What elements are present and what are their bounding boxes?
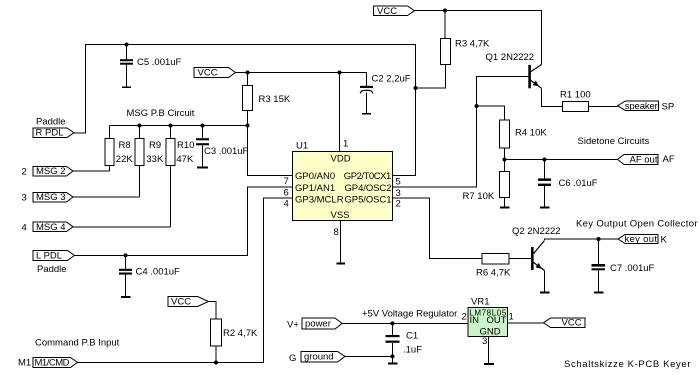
- svg-text:R8: R8: [119, 140, 131, 151]
- svg-text:2: 2: [462, 312, 467, 323]
- svg-text:GP4/OSC2: GP4/OSC2: [345, 183, 392, 194]
- svg-text:R7 10K: R7 10K: [463, 191, 495, 202]
- svg-text:8: 8: [334, 227, 339, 238]
- resistor R8: [109, 126, 111, 139]
- svg-text:GP1/AN1: GP1/AN1: [295, 183, 335, 194]
- tag MSG 2: [33, 167, 73, 177]
- node junction C7: [597, 237, 601, 241]
- tag VCC (VR1 out): [544, 318, 586, 328]
- svg-text:Q2 2N2222: Q2 2N2222: [512, 226, 561, 237]
- svg-text:SP: SP: [662, 101, 675, 112]
- wire VR1 gnd: [488, 337, 490, 364]
- wire Q2 emitter to ground: [544, 271, 546, 293]
- node junction VCC/VDD: [338, 71, 342, 75]
- svg-text:R4 10K: R4 10K: [515, 128, 547, 139]
- svg-text:+5V Voltage Regulator: +5V Voltage Regulator: [362, 309, 457, 320]
- resistor R9: [138, 124, 142, 128]
- svg-text:key out: key out: [625, 234, 658, 245]
- wire Q2 collector to key out: [545, 239, 619, 240]
- wire sidetone node to AF out: [505, 159, 618, 161]
- svg-text:U1: U1: [296, 141, 308, 152]
- node junction VCC/R3: [246, 71, 250, 75]
- svg-text:6: 6: [284, 187, 289, 198]
- svg-text:R3 4,7K: R3 4,7K: [455, 39, 490, 50]
- resistor R1 100: [563, 102, 589, 112]
- ground (C3): [197, 167, 208, 169]
- svg-text:AF out: AF out: [630, 154, 658, 165]
- capacitor C1: [392, 323, 394, 335]
- tag speaker: [618, 101, 659, 111]
- tag MSG 3: [33, 193, 73, 203]
- wire pin2 to R6: [393, 198, 483, 259]
- node junction on pin5 line: [414, 86, 418, 90]
- svg-text:R9: R9: [149, 140, 161, 151]
- wire MSG4 to R10: [73, 226, 171, 228]
- node junction C6: [543, 158, 547, 162]
- wire R3 to msg bus to pin7: [248, 111, 293, 176]
- tag MSG 4: [33, 222, 73, 232]
- svg-text:VSS: VSS: [331, 210, 350, 221]
- svg-text:GP0/AN0: GP0/AN0: [295, 171, 335, 182]
- svg-text:2: 2: [396, 199, 401, 210]
- node junction VCC/R3b: [443, 9, 447, 13]
- resistor R6 4,7K: [482, 254, 509, 265]
- svg-text:Command P.B Input: Command P.B Input: [35, 338, 120, 349]
- wire VR1 out to VCC tag: [508, 322, 544, 324]
- svg-text:VCC: VCC: [171, 297, 191, 308]
- tag M1/CMD: [33, 358, 78, 368]
- tag R PDL: [33, 128, 74, 138]
- node junction C1/ground wire: [391, 354, 395, 358]
- svg-text:C4 .001uF: C4 .001uF: [136, 267, 181, 278]
- svg-text:ground: ground: [304, 352, 334, 363]
- svg-text:Paddle: Paddle: [36, 117, 66, 128]
- svg-text:C3 .001uF: C3 .001uF: [204, 146, 249, 157]
- svg-text:GP3/MCLR: GP3/MCLR: [295, 195, 344, 206]
- svg-text:R6 4,7K: R6 4,7K: [476, 268, 511, 279]
- wire pin4 to M1 line: [78, 198, 293, 363]
- svg-text:OUT: OUT: [487, 315, 507, 326]
- svg-text:33K: 33K: [146, 154, 164, 165]
- svg-text:1: 1: [343, 139, 348, 150]
- svg-text:47K: 47K: [176, 154, 194, 165]
- wire R3 bottom to pin5 line: [416, 65, 446, 89]
- ground (C4): [121, 296, 131, 298]
- resistor R3 4,7K: [444, 11, 446, 39]
- wire Q1 base: [477, 77, 529, 107]
- svg-text:R10: R10: [177, 140, 194, 151]
- wire VDD pin1: [339, 73, 341, 152]
- wire MSG3 to R9: [73, 196, 140, 198]
- svg-text:C5 .001uF: C5 .001uF: [137, 57, 182, 68]
- svg-text:7: 7: [284, 176, 289, 187]
- tag ground: [301, 352, 345, 363]
- svg-text:speaker: speaker: [625, 101, 658, 112]
- node junction C1 top: [391, 321, 395, 325]
- svg-text:5: 5: [396, 176, 401, 187]
- svg-text:VCC: VCC: [562, 318, 582, 329]
- wire msg bus: [110, 125, 248, 127]
- svg-text:R1 100: R1 100: [560, 90, 591, 101]
- svg-text:VR1: VR1: [471, 297, 489, 308]
- node junction L PDL/C4: [124, 253, 128, 257]
- IC U1: [293, 152, 393, 221]
- node junction R2/M1: [214, 361, 218, 365]
- capacitor C6: [544, 160, 546, 179]
- wire ground to C1: [345, 355, 393, 357]
- svg-text:22K: 22K: [116, 154, 134, 165]
- svg-text:Q1 2N2222: Q1 2N2222: [486, 52, 535, 63]
- svg-text:1: 1: [509, 312, 514, 323]
- node junction R4/R7: [503, 158, 507, 162]
- svg-text:VCC: VCC: [377, 6, 397, 17]
- svg-text:IN: IN: [470, 315, 480, 326]
- svg-text:3: 3: [22, 192, 27, 203]
- node junction R3/bus: [246, 124, 250, 128]
- resistor R3 15K: [247, 73, 249, 86]
- svg-text:K: K: [661, 234, 668, 245]
- svg-text:R2 4,7K: R2 4,7K: [223, 328, 258, 339]
- svg-text:C6 .01uF: C6 .01uF: [559, 178, 598, 189]
- svg-text:C1: C1: [406, 331, 418, 342]
- wire L PDL to pin6: [75, 187, 293, 255]
- wire power to VR1: [342, 322, 468, 324]
- svg-text:M1/CMD: M1/CMD: [35, 358, 70, 369]
- svg-text:power: power: [305, 319, 331, 330]
- tag VCC (top): [374, 6, 415, 16]
- capacitor C3: [201, 124, 205, 128]
- tag key out: [618, 235, 658, 244]
- svg-text:GP5/OSC1: GP5/OSC1: [345, 195, 392, 206]
- svg-text:4: 4: [284, 198, 289, 209]
- svg-text:MSG 4: MSG 4: [36, 222, 66, 233]
- svg-text:Sidetone Circuits: Sidetone Circuits: [578, 136, 650, 147]
- capacitor C7: [598, 239, 600, 264]
- svg-text:M1: M1: [18, 358, 31, 369]
- ground (C7): [594, 292, 604, 294]
- wire junction to R4: [477, 106, 505, 120]
- resistor R7 10K: [504, 160, 506, 172]
- tag power: [302, 318, 342, 329]
- ground (VSS): [337, 263, 346, 265]
- tag AF out: [618, 155, 659, 165]
- wire R PDL to top bus to U1 pin5: [74, 45, 416, 176]
- svg-text:GP2/T0CX1: GP2/T0CX1: [344, 171, 392, 182]
- svg-text:Key Output Open Collector: Key Output Open Collector: [576, 219, 698, 230]
- svg-text:3: 3: [482, 336, 487, 347]
- wire VSS pin8 to ground: [340, 221, 342, 264]
- ground (C2): [362, 113, 371, 115]
- ground (C6): [540, 207, 550, 209]
- svg-text:Schaltskizze K-PCB Keyer: Schaltskizze K-PCB Keyer: [564, 359, 691, 370]
- ground (C1): [388, 363, 398, 365]
- ground (VR1): [484, 363, 494, 365]
- tag VCC (mid left): [194, 68, 236, 78]
- capacitor C5: [126, 45, 128, 60]
- capacitor C4: [125, 255, 127, 268]
- svg-text:VCC: VCC: [198, 68, 218, 79]
- svg-text:MSG 2: MSG 2: [36, 166, 66, 177]
- svg-text:.1uF: .1uF: [403, 345, 422, 356]
- svg-text:4: 4: [22, 222, 27, 233]
- svg-text:V+: V+: [287, 320, 299, 331]
- capacitor C2 2,2uF: [360, 86, 373, 88]
- ground (C5): [122, 86, 131, 88]
- resistor R2 4,7K: [209, 302, 217, 320]
- node junction base/R4/pin3: [475, 104, 479, 108]
- svg-text:G: G: [289, 353, 296, 364]
- svg-text:Paddle: Paddle: [37, 264, 67, 275]
- resistor R10: [169, 124, 173, 128]
- svg-text:VDD: VDD: [331, 154, 351, 165]
- wire pin3 to junction: [393, 106, 477, 187]
- svg-text:L PDL: L PDL: [36, 251, 62, 262]
- tag L PDL: [33, 251, 75, 261]
- svg-text:3: 3: [396, 188, 401, 199]
- wire Q1 emitter to R1: [542, 88, 563, 106]
- tag VCC (R2): [168, 297, 209, 307]
- resistor R4 10K: [500, 120, 510, 148]
- wire VCC top rail to Q1 collector: [415, 11, 542, 65]
- wire MSG2 to R8: [73, 170, 110, 172]
- ground (R7): [500, 207, 510, 209]
- svg-text:AF: AF: [663, 154, 675, 165]
- svg-text:R PDL: R PDL: [36, 128, 64, 139]
- svg-text:C7 .001uF: C7 .001uF: [610, 263, 655, 274]
- svg-text:MSG 3: MSG 3: [36, 192, 66, 203]
- svg-text:MSG P.B Circuit: MSG P.B Circuit: [127, 108, 195, 119]
- svg-text:R3 15K: R3 15K: [259, 94, 291, 105]
- wire VCC mid rail: [236, 73, 367, 86]
- svg-text:C2 2,2uF: C2 2,2uF: [372, 74, 411, 85]
- ground (Q2): [540, 292, 550, 294]
- svg-text:2: 2: [22, 166, 27, 177]
